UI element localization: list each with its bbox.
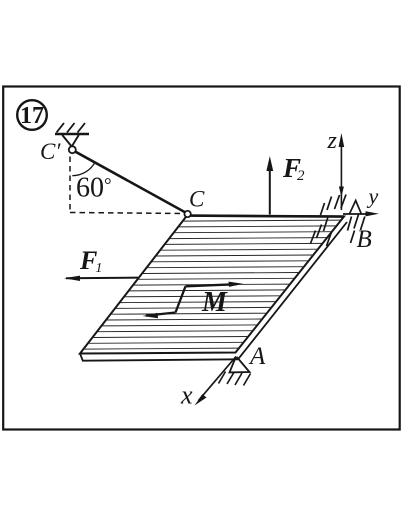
svg-text:17: 17	[20, 103, 44, 129]
support triangle at B	[350, 201, 362, 214]
y axis	[343, 213, 370, 215]
force F2 arrow	[269, 162, 271, 215]
ceiling support at C' : hatching	[57, 123, 86, 133]
svg-text:C′: C′	[40, 139, 61, 164]
small down arrow on z axis	[339, 187, 344, 198]
support hatching at B	[311, 195, 365, 247]
svg-text:B: B	[357, 226, 372, 253]
60 degree arc	[72, 162, 95, 175]
svg-text:F1: F1	[79, 246, 102, 276]
ceiling line at C'	[55, 133, 89, 136]
svg-text:x: x	[180, 381, 193, 410]
svg-text:60°: 60°	[76, 173, 112, 204]
border frame	[3, 87, 400, 430]
plate hatching	[85, 220, 341, 349]
support triangle at A	[230, 357, 250, 373]
moment M arrow (couple)	[146, 284, 237, 315]
pin circle at C	[184, 211, 190, 217]
z axis	[340, 140, 342, 210]
problem number circle 17	[17, 100, 47, 130]
plate slab bottom edge	[80, 354, 238, 361]
plate slab right edge outer line	[238, 222, 347, 359]
svg-text:C: C	[189, 187, 205, 212]
dashed horizontal to C	[70, 213, 184, 214]
force F1 arrow	[66, 277, 138, 280]
support hatching at A	[219, 372, 251, 386]
svg-text:z: z	[327, 128, 338, 154]
plate top face outline	[80, 216, 344, 354]
svg-text:F2: F2	[282, 153, 305, 184]
svg-text:A: A	[248, 343, 266, 370]
cable C'C	[75, 152, 185, 213]
dashed vertical from C'	[69, 157, 71, 213]
pin circle at C'	[69, 146, 76, 153]
plate top edge emphasis	[188, 216, 344, 217]
svg-text:M: M	[201, 287, 228, 318]
support triangle at C'	[62, 135, 79, 147]
svg-text:y: y	[367, 184, 379, 209]
x axis	[199, 357, 237, 401]
